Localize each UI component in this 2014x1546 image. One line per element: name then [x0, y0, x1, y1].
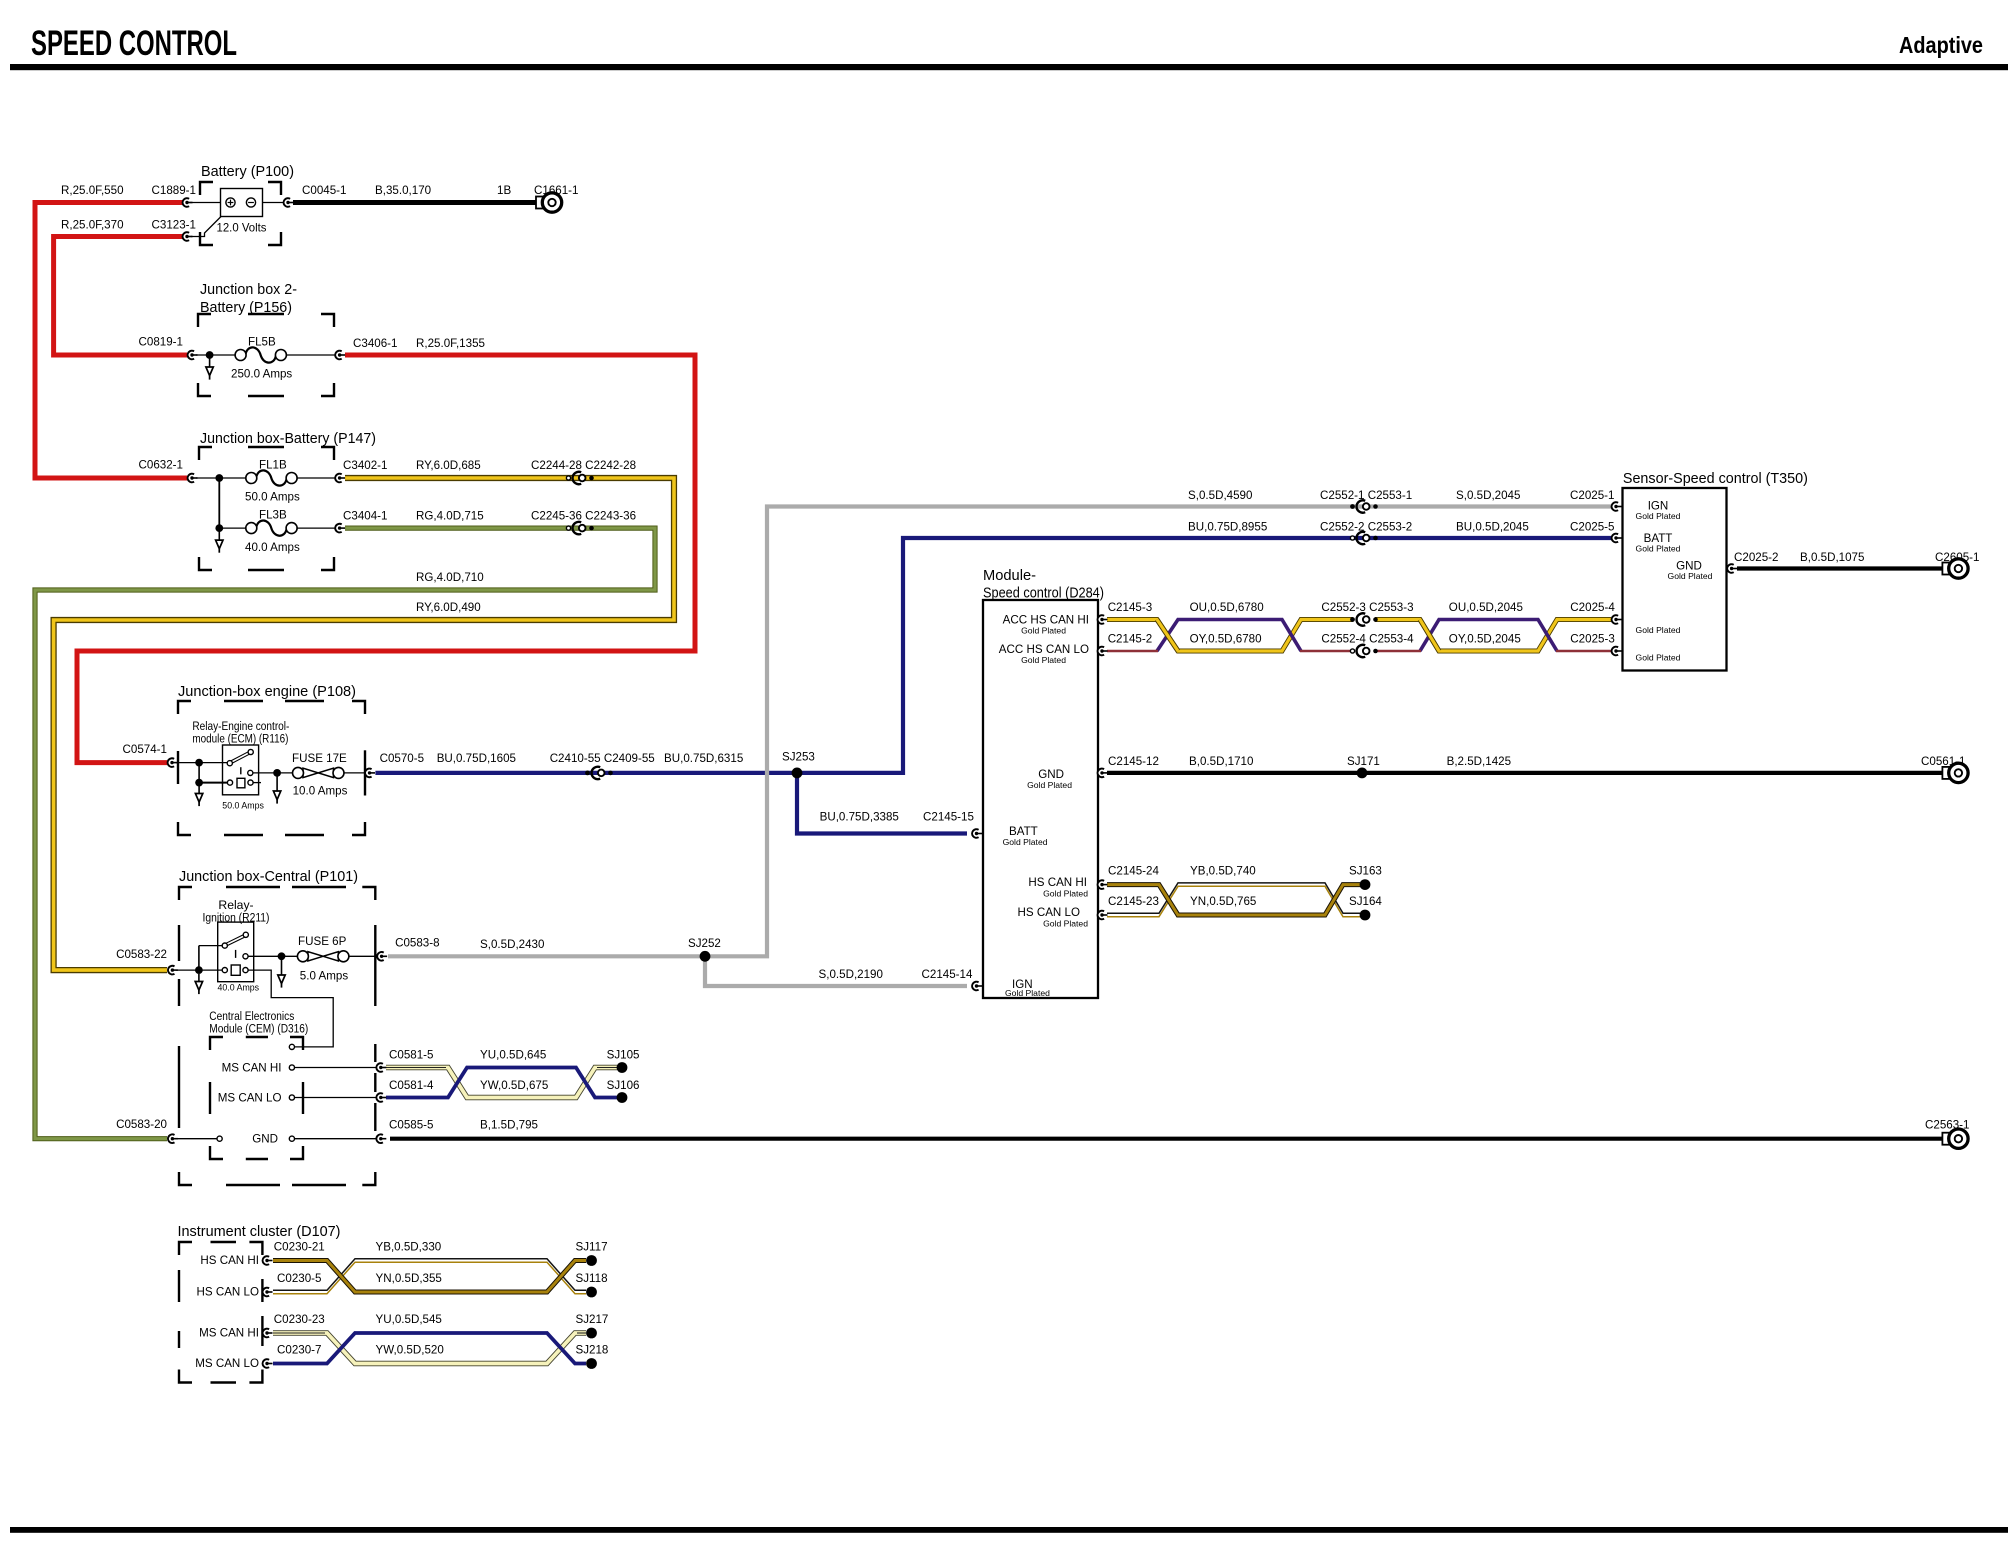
- svg-text:YW,0.5D,675: YW,0.5D,675: [480, 1079, 548, 1092]
- svg-text:Gold Plated: Gold Plated: [1043, 889, 1088, 899]
- wire B,35.0,170 battery ground cable: [293, 200, 538, 205]
- junction P147 feed node: [215, 474, 223, 482]
- connector C2145-24: [1098, 880, 1108, 889]
- battery P100 body: [221, 189, 263, 217]
- svg-text:Sensor-Speed control (T350): Sensor-Speed control (T350): [1623, 471, 1808, 487]
- svg-text:FL5B: FL5B: [248, 336, 276, 349]
- svg-text:C0581-5: C0581-5: [389, 1049, 433, 1062]
- svg-text:C2245-36 C2243-36: C2245-36 C2243-36: [531, 510, 636, 523]
- connector C3404-1: [335, 524, 345, 533]
- relay R211 box: [218, 922, 254, 982]
- svg-text:YU,0.5D,645: YU,0.5D,645: [480, 1049, 546, 1062]
- wire YU trace line in pale stub (cluster): [273, 1332, 586, 1334]
- relay R116 box: [223, 745, 259, 795]
- inline connector C2244-28/C2242-28: [566, 472, 593, 484]
- ground: [195, 786, 202, 806]
- ground: [195, 974, 202, 994]
- svg-text:SJ217: SJ217: [576, 1313, 609, 1326]
- svg-text:C2244-28 C2242-28: C2244-28 C2242-28: [531, 459, 636, 472]
- inline connector C2410-55/C2409-55: [585, 767, 613, 779]
- ring terminal C0561-1: [1942, 763, 1968, 782]
- wire S,0.5D,2190 branch to module IGN: [705, 956, 967, 986]
- wire OY yellow over crossing span2: [1420, 620, 1439, 652]
- svg-text:RY,6.0D,685: RY,6.0D,685: [416, 459, 481, 472]
- svg-text:S,0.5D,2190: S,0.5D,2190: [819, 968, 883, 981]
- svg-text:Junction-box engine (P108): Junction-box engine (P108): [178, 684, 356, 700]
- svg-text:BU,0.75D,1605: BU,0.75D,1605: [437, 752, 516, 765]
- junction R116 input node: [195, 759, 203, 767]
- wire B,0.5D,1075 sensor ground: [1737, 566, 1942, 570]
- svg-text:C0230-7: C0230-7: [277, 1344, 321, 1357]
- connector C3123-1: [183, 232, 193, 241]
- wire OU,0.5D,6780 ACC HS CAN (purple) span1: [1107, 620, 1353, 652]
- svg-text:C2145-23: C2145-23: [1108, 895, 1159, 908]
- junction box P147 bracket: [199, 447, 334, 570]
- wire S,0.5D ignition feed to sensor: [388, 507, 1611, 957]
- junction R116 coil node: [195, 779, 203, 787]
- svg-text:C3406-1: C3406-1: [353, 337, 397, 350]
- svg-text:B,0.5D,1710: B,0.5D,1710: [1189, 755, 1253, 768]
- svg-text:50.0 Amps: 50.0 Amps: [222, 801, 264, 811]
- splice SJ218: [586, 1358, 597, 1369]
- splice SJ253: [792, 768, 803, 779]
- svg-text:YB,0.5D,740: YB,0.5D,740: [1190, 865, 1256, 878]
- svg-text:HS CAN LO: HS CAN LO: [1018, 906, 1081, 919]
- svg-text:5.0 Amps: 5.0 Amps: [300, 970, 349, 983]
- svg-text:C2552-2 C2553-2: C2552-2 C2553-2: [1320, 521, 1412, 534]
- connector C0581-5: [376, 1063, 386, 1072]
- svg-text:C2552-3 C2553-3: C2552-3 C2553-3: [1321, 601, 1413, 614]
- svg-text:C1661-1: C1661-1: [534, 184, 578, 197]
- CEM pin MS CAN HI: [289, 1065, 376, 1070]
- top rule: [10, 64, 2008, 70]
- svg-text:C0583-22: C0583-22: [116, 948, 167, 961]
- svg-text:S,0.5D,2430: S,0.5D,2430: [480, 938, 544, 951]
- svg-text:C3402-1: C3402-1: [343, 459, 387, 472]
- inline connector C2552-3/C2553-3: [1350, 613, 1378, 625]
- wire OY,0.5D,2045 ACC HS CAN (yellow) span2: [1375, 620, 1611, 652]
- svg-text:YW,0.5D,520: YW,0.5D,520: [376, 1344, 444, 1357]
- svg-text:B,35.0,170: B,35.0,170: [375, 184, 431, 197]
- svg-text:SJ163: SJ163: [1349, 865, 1382, 878]
- svg-text:C2145-24: C2145-24: [1108, 865, 1159, 878]
- wire fuse 17E to C0570-5: [344, 772, 366, 774]
- svg-text:SJ105: SJ105: [607, 1049, 640, 1062]
- wire YB,0.5D,330 cluster HS CAN HI (amber): [273, 1261, 586, 1293]
- svg-text:SJ164: SJ164: [1349, 895, 1382, 908]
- svg-text:S,0.5D,2045: S,0.5D,2045: [1456, 489, 1520, 502]
- connector C0583-22: [168, 966, 178, 975]
- ring terminal C2605-1: [1942, 559, 1968, 578]
- svg-text:Gold Plated: Gold Plated: [1668, 571, 1713, 581]
- svg-text:B,0.5D,1075: B,0.5D,1075: [1800, 551, 1864, 564]
- module D284 box: [983, 600, 1098, 998]
- svg-text:C2410-55 C2409-55: C2410-55 C2409-55: [550, 752, 655, 765]
- junction box P101 bracket: [179, 887, 375, 1185]
- splice SJ217: [586, 1328, 597, 1339]
- wire YW,0.5D,520 cluster MS CAN LO (navy): [273, 1333, 586, 1364]
- relay R211 internal feed wires: [176, 946, 223, 971]
- svg-text:Gold Plated: Gold Plated: [1636, 544, 1681, 554]
- svg-text:C0583-20: C0583-20: [116, 1118, 167, 1131]
- CEM pin GND: [177, 1136, 376, 1141]
- connector C0632-1: [188, 474, 198, 483]
- svg-text:FUSE 6P: FUSE 6P: [298, 935, 347, 948]
- relay R116 coil: [227, 778, 261, 788]
- svg-text:OU,0.5D,2045: OU,0.5D,2045: [1449, 601, 1523, 614]
- svg-text:40.0 Amps: 40.0 Amps: [218, 983, 260, 993]
- ring terminal C1661-1: [536, 193, 562, 212]
- connector C0230-7 pin: [263, 1359, 273, 1368]
- svg-text:BU,0.5D,2045: BU,0.5D,2045: [1456, 521, 1529, 534]
- relay R116 internal feed wires: [176, 763, 228, 783]
- svg-text:Battery (P100): Battery (P100): [201, 164, 294, 180]
- connector C2145-12: [1098, 769, 1108, 778]
- ground: [278, 960, 285, 988]
- connector C0230-5 pin: [263, 1288, 273, 1297]
- svg-text:C2563-1: C2563-1: [1925, 1119, 1969, 1132]
- svg-text:C0574-1: C0574-1: [123, 743, 167, 756]
- svg-text:YU,0.5D,545: YU,0.5D,545: [376, 1313, 442, 1326]
- svg-text:module (ECM) (R116): module (ECM) (R116): [192, 732, 288, 746]
- connector C0583-8: [377, 952, 387, 961]
- svg-text:C0230-5: C0230-5: [277, 1272, 321, 1285]
- svg-text:Gold Plated: Gold Plated: [1021, 626, 1066, 636]
- connector C0045-1: [284, 198, 294, 207]
- P156 internal wire: [196, 354, 336, 356]
- svg-text:R,25.0F,1355: R,25.0F,1355: [416, 337, 485, 350]
- battery P100 internal leads: [190, 203, 284, 237]
- svg-text:S,0.5D,4590: S,0.5D,4590: [1188, 489, 1252, 502]
- svg-text:Instrument cluster (D107): Instrument cluster (D107): [178, 1224, 341, 1240]
- wire YN,0.5D,765 HS CAN LO (double thin): [1107, 883, 1360, 917]
- P147 internal wires: [196, 478, 336, 528]
- connector C2025-1: [1612, 502, 1622, 511]
- connector C3406-1: [335, 351, 345, 360]
- svg-text:C2025-2: C2025-2: [1734, 551, 1778, 564]
- CEM D316 bracket: [210, 1037, 303, 1159]
- connector C2025-5: [1612, 534, 1622, 543]
- junction fuse 6P input node: [278, 952, 286, 960]
- svg-text:OY,0.5D,6780: OY,0.5D,6780: [1190, 633, 1262, 646]
- svg-text:C2145-14: C2145-14: [922, 968, 973, 981]
- wire YU,0.5D,545 cluster MS CAN HI (pale yellow): [273, 1333, 586, 1364]
- svg-text:C2025-1: C2025-1: [1570, 489, 1614, 502]
- splice SJ117: [586, 1255, 597, 1266]
- svg-text:Gold Plated: Gold Plated: [1636, 653, 1681, 663]
- wire R,25.0F,370 battery feed: [54, 237, 187, 356]
- inline connector C2552-1/C2553-1: [1350, 500, 1378, 512]
- wire YB,0.5D,740 HS CAN HI (amber): [1107, 885, 1360, 915]
- splice SJ106: [617, 1092, 628, 1103]
- svg-text:SPEED CONTROL: SPEED CONTROL: [31, 24, 237, 63]
- junction fuse 17E input node: [273, 769, 281, 777]
- fuse FUSE 6P: [297, 951, 349, 962]
- connector C0819-1: [188, 351, 198, 360]
- svg-text:50.0 Amps: 50.0 Amps: [245, 491, 300, 504]
- connector C2145-15: [972, 829, 982, 838]
- splice SJ163: [1360, 879, 1371, 890]
- connector C2025-4: [1612, 615, 1622, 624]
- svg-text:R,25.0F,550: R,25.0F,550: [61, 184, 124, 197]
- svg-text:C2552-4 C2553-4: C2552-4 C2553-4: [1321, 633, 1414, 646]
- wire BU,0.75D battery feed to sensor: [375, 538, 1611, 773]
- svg-text:C0570-5: C0570-5: [380, 752, 424, 765]
- svg-text:Adaptive: Adaptive: [1899, 32, 1983, 58]
- svg-text:Module (CEM) (D316): Module (CEM) (D316): [209, 1022, 308, 1036]
- connector C0583-20: [168, 1134, 178, 1143]
- svg-text:C0819-1: C0819-1: [139, 336, 183, 349]
- junction R211 input node: [195, 966, 203, 974]
- wire R,25.0F,550 battery feed: [35, 203, 187, 479]
- ring terminal C2563-1: [1942, 1129, 1968, 1148]
- junction P156 feed node: [206, 351, 214, 359]
- wire OU,0.5D,2045 ACC HS CAN (purple) span2: [1375, 620, 1611, 652]
- battery P100 bracket: [200, 182, 281, 245]
- connector C0581-4: [376, 1093, 386, 1102]
- svg-text:SJ253: SJ253: [782, 751, 815, 764]
- instrument cluster D107 bracket: [179, 1242, 262, 1383]
- svg-text:C2025-5: C2025-5: [1570, 521, 1614, 534]
- svg-text:YN,0.5D,765: YN,0.5D,765: [1190, 895, 1256, 908]
- svg-text:C0230-21: C0230-21: [274, 1241, 325, 1254]
- svg-text:C2145-2: C2145-2: [1108, 633, 1152, 646]
- wire R,25.0F,1355 from FL5B: [77, 355, 695, 763]
- svg-text:B,2.5D,1425: B,2.5D,1425: [1447, 755, 1511, 768]
- svg-text:C3404-1: C3404-1: [343, 510, 387, 523]
- CEM pin MS CAN LO: [289, 1095, 376, 1100]
- relay R116 switch: [227, 749, 253, 775]
- splice SJ118: [586, 1287, 597, 1298]
- splice SJ164: [1360, 910, 1371, 921]
- svg-text:Gold Plated: Gold Plated: [1005, 988, 1050, 998]
- R211 coil wire to CEM: [248, 970, 333, 1047]
- svg-text:GND: GND: [252, 1133, 278, 1146]
- svg-text:HS CAN LO: HS CAN LO: [197, 1286, 260, 1299]
- svg-text:40.0 Amps: 40.0 Amps: [245, 541, 300, 554]
- svg-text:Gold Plated: Gold Plated: [1636, 625, 1681, 635]
- svg-text:Gold Plated: Gold Plated: [1021, 655, 1066, 665]
- wire OY,0.5D,6780 ACC HS CAN (yellow) span1: [1107, 620, 1353, 652]
- svg-text:BU,0.75D,8955: BU,0.75D,8955: [1188, 521, 1267, 534]
- svg-text:Module-: Module-: [983, 568, 1036, 584]
- wire YW,0.5D,675 MS CAN LO (navy): [386, 1068, 617, 1098]
- splice SJ252: [700, 951, 711, 962]
- svg-text:C0583-8: C0583-8: [395, 937, 439, 950]
- inline connector C2552-4/C2553-4: [1350, 645, 1377, 657]
- svg-text:SJ171: SJ171: [1347, 755, 1380, 768]
- svg-text:1B: 1B: [497, 184, 511, 197]
- wire OY yellow over crossing span1: [1157, 620, 1178, 652]
- svg-text:10.0 Amps: 10.0 Amps: [293, 785, 348, 798]
- svg-text:YN,0.5D,355: YN,0.5D,355: [376, 1272, 442, 1285]
- sensor T350 box: [1623, 488, 1727, 671]
- connector C0570-5: [365, 769, 375, 778]
- junction box P156 bracket: [198, 314, 334, 396]
- wire YU trace line in pale stub: [386, 1067, 617, 1069]
- connector C0574-1: [168, 758, 178, 767]
- svg-text:Gold Plated: Gold Plated: [1003, 837, 1048, 847]
- wire RG,4.0D,715/710 from FL3B: [35, 528, 655, 1139]
- junction box P108 bracket: [178, 701, 365, 835]
- fusible link FL5B: [235, 347, 286, 362]
- svg-text:SJ118: SJ118: [576, 1272, 608, 1285]
- wire RY,6.0D,685/490 from FL1B: [54, 478, 674, 970]
- fuse FUSE 17E: [293, 767, 345, 778]
- svg-text:MS CAN HI: MS CAN HI: [199, 1327, 259, 1340]
- svg-text:OY,0.5D,2045: OY,0.5D,2045: [1449, 633, 1521, 646]
- svg-text:R,25.0F,370: R,25.0F,370: [61, 219, 124, 232]
- connector C2025-3: [1612, 647, 1622, 656]
- svg-text:C2145-3: C2145-3: [1108, 601, 1152, 614]
- connector C1889-1: [183, 198, 193, 207]
- splice SJ105: [617, 1062, 628, 1073]
- relay R211 switch: [222, 932, 248, 959]
- ground: [206, 355, 213, 380]
- fusible link FL3B: [246, 520, 297, 535]
- svg-text:Junction box-Central (P101): Junction box-Central (P101): [179, 869, 358, 885]
- relay R211 coil: [222, 965, 248, 975]
- R211 switch output wire: [248, 955, 299, 957]
- svg-text:MS CAN HI: MS CAN HI: [222, 1062, 282, 1075]
- svg-text:FUSE 17E: FUSE 17E: [292, 752, 347, 765]
- svg-text:RY,6.0D,490: RY,6.0D,490: [416, 601, 481, 614]
- svg-text:SJ252: SJ252: [688, 937, 721, 950]
- svg-text:MS CAN LO: MS CAN LO: [218, 1092, 282, 1105]
- svg-text:FL3B: FL3B: [259, 509, 287, 522]
- connector C0230-21 pin: [263, 1256, 273, 1265]
- svg-text:SJ106: SJ106: [607, 1079, 640, 1092]
- svg-text:C2145-12: C2145-12: [1108, 755, 1159, 768]
- svg-text:BU,0.75D,6315: BU,0.75D,6315: [664, 752, 743, 765]
- svg-text:C0632-1: C0632-1: [139, 459, 183, 472]
- connector C2145-2: [1098, 647, 1108, 656]
- wire B,1.5D,795 CEM ground: [390, 1137, 1942, 1141]
- svg-text:C2025-4: C2025-4: [1570, 601, 1615, 614]
- svg-text:C2145-15: C2145-15: [923, 811, 974, 824]
- connector C2145-3: [1098, 615, 1108, 624]
- inline connector C2245-36/C2243-36: [566, 522, 593, 534]
- bottom rule: [10, 1527, 2008, 1533]
- svg-text:YB,0.5D,330: YB,0.5D,330: [376, 1241, 442, 1254]
- svg-text:RG,4.0D,710: RG,4.0D,710: [416, 571, 484, 584]
- svg-text:C1889-1: C1889-1: [152, 184, 196, 197]
- svg-text:250.0 Amps: 250.0 Amps: [231, 368, 292, 381]
- splice SJ171: [1357, 768, 1368, 779]
- connector C2025-2: [1727, 564, 1737, 573]
- svg-text:Junction box 2-: Junction box 2-: [200, 282, 297, 298]
- wire fuse 6P to C0583-8: [349, 955, 378, 957]
- ground: [216, 528, 223, 553]
- wire BU,0.75D,3385 branch to module BATT: [797, 773, 967, 834]
- wire YU,0.5D,645 MS CAN HI (pale yellow): [386, 1068, 617, 1098]
- svg-text:C3123-1: C3123-1: [152, 219, 196, 232]
- svg-text:HS CAN HI: HS CAN HI: [1028, 876, 1087, 889]
- svg-text:MS CAN LO: MS CAN LO: [195, 1357, 259, 1370]
- fusible link FL1B: [246, 470, 297, 485]
- wire YN,0.5D,355 cluster HS CAN LO (double thin): [273, 1259, 586, 1294]
- svg-text:Gold Plated: Gold Plated: [1636, 511, 1681, 521]
- svg-text:B,1.5D,795: B,1.5D,795: [480, 1119, 538, 1132]
- svg-text:RG,4.0D,715: RG,4.0D,715: [416, 510, 484, 523]
- svg-text:C0585-5: C0585-5: [389, 1119, 433, 1132]
- svg-text:Gold Plated: Gold Plated: [1043, 919, 1088, 929]
- CEM relay-feed pin: [289, 1044, 294, 1049]
- connector C0230-23 pin: [263, 1329, 273, 1338]
- connector C2145-14: [972, 982, 982, 991]
- connector C2145-23: [1098, 911, 1108, 920]
- svg-text:C0581-4: C0581-4: [389, 1079, 434, 1092]
- svg-text:SJ117: SJ117: [576, 1241, 608, 1254]
- svg-text:Gold Plated: Gold Plated: [1027, 780, 1072, 790]
- R116 switch output wire: [253, 772, 294, 774]
- inline connector C2552-2/C2553-2: [1350, 532, 1377, 544]
- svg-text:C2025-3: C2025-3: [1570, 633, 1614, 646]
- svg-text:OU,0.5D,6780: OU,0.5D,6780: [1190, 601, 1264, 614]
- svg-text:BU,0.75D,3385: BU,0.75D,3385: [820, 811, 899, 824]
- svg-text:HS CAN HI: HS CAN HI: [200, 1254, 259, 1267]
- svg-text:C0045-1: C0045-1: [302, 184, 346, 197]
- svg-text:Junction box-Battery (P147): Junction box-Battery (P147): [200, 431, 376, 447]
- svg-text:12.0 Volts: 12.0 Volts: [217, 222, 267, 235]
- connector C0585-5: [376, 1134, 386, 1143]
- junction P147 FL3B node: [215, 524, 223, 532]
- svg-text:FL1B: FL1B: [259, 459, 287, 472]
- svg-text:C0230-23: C0230-23: [274, 1313, 325, 1326]
- wire B,0.5D,1710 / B,2.5D,1425 module ground: [1107, 771, 1942, 775]
- svg-text:C2552-1 C2553-1: C2552-1 C2553-1: [1320, 489, 1412, 502]
- connector C3402-1: [335, 474, 345, 483]
- svg-text:SJ218: SJ218: [576, 1344, 609, 1357]
- ground: [273, 776, 280, 804]
